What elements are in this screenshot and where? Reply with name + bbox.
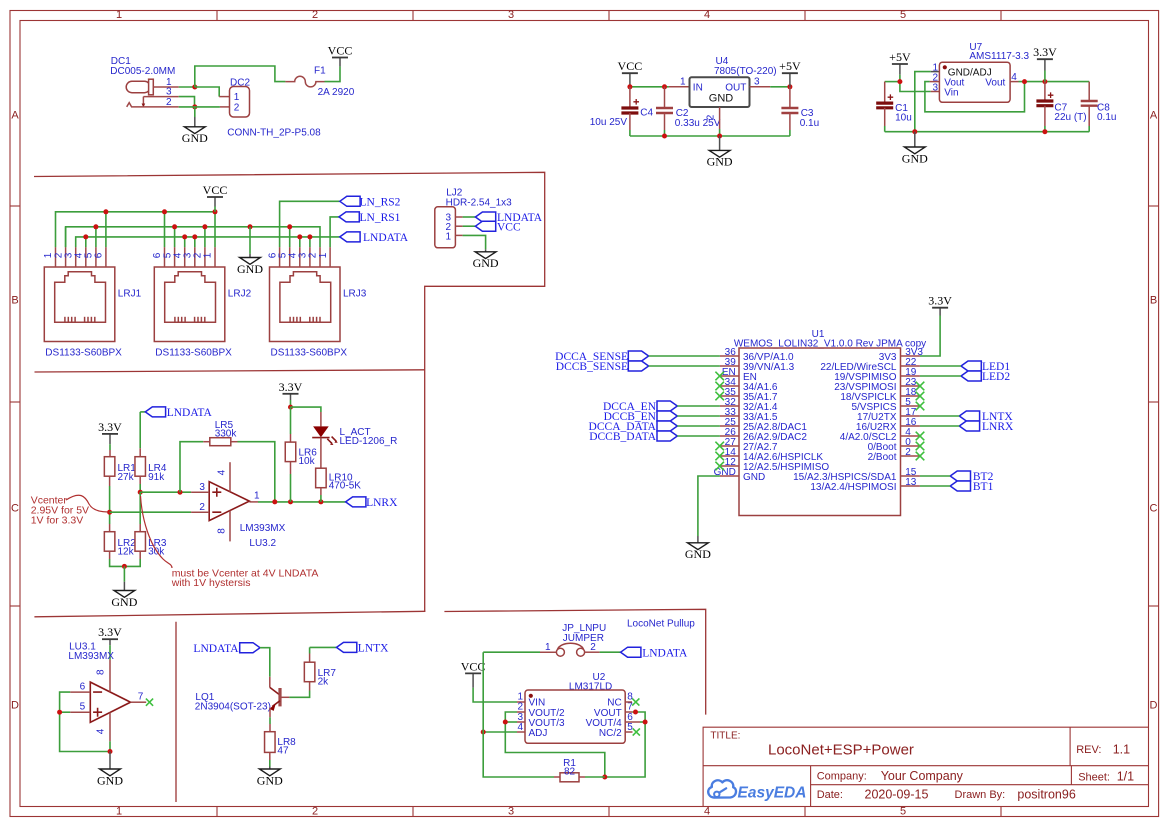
wire BT2 to U1 xyxy=(920,475,950,477)
pin U4.1 IN stub xyxy=(669,86,690,88)
net flag DCCA_SENSE xyxy=(628,351,648,361)
svg-text:13: 13 xyxy=(905,477,917,488)
junction 3.3V/C7 xyxy=(1042,79,1047,84)
svg-text:5: 5 xyxy=(900,9,906,21)
EasyEDA logo xyxy=(708,780,806,801)
svg-text:91k: 91k xyxy=(148,472,165,483)
junction C2 bottom xyxy=(662,134,667,139)
net flag BT2 xyxy=(950,471,970,481)
pin U7.3 Vin stub xyxy=(931,91,940,93)
junction feedback tap on pin3 wire xyxy=(178,490,183,495)
ground symbol at DC input xyxy=(182,107,208,145)
regulator U7 AMS1117-3.3 xyxy=(932,42,1029,103)
power flag 3.3V at LED xyxy=(279,380,303,407)
resistor LR2 12k xyxy=(104,512,136,566)
wire LRJ3 pin5 riser xyxy=(289,227,291,247)
svg-text:1: 1 xyxy=(680,77,686,88)
svg-text:REV:: REV: xyxy=(1076,744,1101,756)
svg-text:5: 5 xyxy=(900,806,906,818)
pin U7.4 Vout stub xyxy=(1010,81,1018,83)
power flag VCC at U2 xyxy=(461,659,486,687)
transistor LQ1 2N3904(SOT-23) xyxy=(195,677,290,718)
wire jumper pin1 to pullup net xyxy=(483,651,540,653)
svg-text:Company:: Company: xyxy=(817,771,867,783)
wire LRJ2 pin6 riser xyxy=(164,212,166,247)
resistor LR8 47 xyxy=(265,724,297,767)
svg-text:GND: GND xyxy=(237,262,263,276)
junction LR6 on output xyxy=(288,499,293,504)
svg-text:8: 8 xyxy=(216,528,227,534)
svg-text:LRJ2: LRJ2 xyxy=(228,288,252,299)
svg-text:GND: GND xyxy=(111,595,137,609)
pin U4.2 GND xyxy=(706,107,720,136)
net flag LN_RS2 xyxy=(340,196,360,206)
net flag LNDATA at LR4 xyxy=(145,407,165,417)
wire DCCA_EN to U1 xyxy=(677,405,720,407)
svg-text:NC/2: NC/2 xyxy=(599,728,622,739)
svg-text:22u (T): 22u (T) xyxy=(1054,112,1086,123)
U1 left pins xyxy=(714,347,830,483)
svg-text:2020-09-15: 2020-09-15 xyxy=(865,788,929,802)
wire fuse to VCC xyxy=(325,66,341,81)
junction divider ground node xyxy=(122,564,127,569)
pin U2.1 VIN stub xyxy=(517,701,525,703)
annotation hysteresis note xyxy=(141,496,319,589)
wire DCCA_SENSE to U1 xyxy=(649,355,720,357)
jumper JP_LNPU xyxy=(545,623,606,656)
wire pullup net left riser xyxy=(483,652,554,777)
svg-text:GND: GND xyxy=(182,131,208,145)
junction feedback on output xyxy=(272,499,277,504)
net flag VCC at LJ2 xyxy=(475,221,495,231)
svg-text:1: 1 xyxy=(203,252,214,258)
svg-text:2N3904(SOT-23): 2N3904(SOT-23) xyxy=(195,702,271,713)
svg-text:4: 4 xyxy=(96,728,107,734)
wire LQ1 collector to LR7 xyxy=(289,691,309,698)
no-connect at LU3.1 pin7 xyxy=(146,699,153,706)
svg-text:HDR-2.54_1x3: HDR-2.54_1x3 xyxy=(446,197,513,208)
ground symbol at LU3.1 xyxy=(97,752,123,788)
svg-text:GND: GND xyxy=(709,93,734,105)
net flag LNDATA at LQ1 xyxy=(240,643,260,653)
junction LRJ1 pin6 on VCC bus xyxy=(103,209,108,214)
junction LRJ3 pin3 xyxy=(307,234,312,239)
svg-text:CONN-TH_2P-P5.08: CONN-TH_2P-P5.08 xyxy=(227,128,321,139)
svg-text:2: 2 xyxy=(706,114,717,120)
svg-text:C: C xyxy=(11,503,19,515)
svg-text:GND: GND xyxy=(473,256,499,270)
svg-text:1.1: 1.1 xyxy=(1113,743,1130,757)
svg-text:ADJ: ADJ xyxy=(529,728,548,739)
net flag DCCA_EN xyxy=(657,401,677,411)
svg-text:1: 1 xyxy=(116,9,122,21)
svg-text:10k: 10k xyxy=(299,456,316,467)
wire DC1 pin1 to junction xyxy=(179,86,195,88)
net flag BT1 xyxy=(950,481,970,491)
wire U7 output to 3.3V and caps xyxy=(1019,81,1090,83)
regulator U2 LM317LD xyxy=(517,672,640,743)
power flag 3.3V at LU3.1 xyxy=(98,625,122,660)
capacitor C3 0.1u xyxy=(781,87,819,136)
svg-text:3: 3 xyxy=(508,9,514,21)
svg-text:LNRX: LNRX xyxy=(366,497,398,509)
svg-text:7805(TO-220): 7805(TO-220) xyxy=(714,66,777,77)
wire LRJ3 pin1 to LN_RS1 flag xyxy=(330,217,339,247)
svg-text:4: 4 xyxy=(216,469,227,475)
svg-text:1: 1 xyxy=(445,231,451,242)
net flag LNDATA at jumper xyxy=(621,647,641,657)
wire LU3.1 pin4 to ground xyxy=(109,741,111,751)
junction U2 ADJ xyxy=(481,730,486,735)
svg-text:positron96: positron96 xyxy=(1017,788,1075,802)
svg-text:LED-1206_R: LED-1206_R xyxy=(340,436,398,447)
svg-text:VCC: VCC xyxy=(203,183,228,197)
net flag LNTX at U1 xyxy=(959,411,979,421)
svg-text:+5V: +5V xyxy=(889,50,911,64)
svg-text:3.3V: 3.3V xyxy=(1033,45,1057,59)
svg-text:7: 7 xyxy=(138,692,144,703)
RJ jack LRJ1 DS1133-S60BPX xyxy=(43,247,141,358)
svg-text:Sheet:: Sheet: xyxy=(1078,772,1110,784)
svg-text:LM393MX: LM393MX xyxy=(68,651,114,662)
svg-text:GND: GND xyxy=(902,151,928,165)
svg-text:2: 2 xyxy=(199,502,205,513)
resistor LR5 330k feedback xyxy=(180,420,275,502)
svg-text:1: 1 xyxy=(234,92,240,103)
net flag LN_RS1 xyxy=(339,212,359,222)
svg-text:LNDATA: LNDATA xyxy=(167,407,213,419)
power flag VCC at fuse xyxy=(328,44,353,67)
svg-text:4: 4 xyxy=(704,9,710,21)
no-connect marks U1 right xyxy=(916,382,925,461)
wire U2 ADJ to pullup net xyxy=(483,731,517,733)
wire comparator output to LNRX xyxy=(258,501,346,503)
wire +5V node to C1 and Vin xyxy=(899,75,901,82)
ground symbol at divider xyxy=(111,566,137,608)
net flag LNRX at comparator xyxy=(346,497,366,507)
svg-text:0.1u: 0.1u xyxy=(800,118,819,129)
pin U4.3 OUT stub xyxy=(750,86,771,88)
svg-text:LNTX: LNTX xyxy=(358,643,389,655)
RJ jack LRJ2 DS1133-S60BPX xyxy=(152,247,251,358)
resistor LR6 10k xyxy=(285,407,317,502)
svg-text:LNDATA: LNDATA xyxy=(193,643,239,655)
region outline: bottom blocks top edge xyxy=(34,611,425,617)
svg-text:DS1133-S60BPX: DS1133-S60BPX xyxy=(155,347,232,358)
svg-text:DS1133-S60BPX: DS1133-S60BPX xyxy=(45,347,122,358)
svg-text:IN: IN xyxy=(693,82,703,93)
junction C2 top xyxy=(662,84,667,89)
wire LRJ2 pin3 riser xyxy=(194,237,196,247)
svg-text:LocoNet Pullup: LocoNet Pullup xyxy=(627,619,695,630)
junction at DC1 pin1 node xyxy=(192,85,197,90)
svg-text:LNRX: LNRX xyxy=(982,421,1014,433)
net flag LED1 xyxy=(961,361,981,371)
junction 3.3V LED node xyxy=(288,405,293,410)
svg-text:10u 25V: 10u 25V xyxy=(590,117,628,128)
wire LRJ1 pin5 riser xyxy=(95,227,97,247)
svg-text:LocoNet+ESP+Power: LocoNet+ESP+Power xyxy=(768,742,914,759)
junction LR10 on output xyxy=(318,499,323,504)
wire bus ground rail (LRJ pins 2,5) xyxy=(66,227,320,247)
wire DC1 pin2 to DC2 pin2 xyxy=(179,106,220,108)
net flag DCCA_DATA xyxy=(657,421,677,431)
power flag 3.3V at divider xyxy=(98,420,122,444)
svg-text:1/1: 1/1 xyxy=(1117,770,1134,784)
RJ jack LRJ3 DS1133-S60BPX xyxy=(267,247,366,358)
resistor LR4 91k xyxy=(135,412,167,492)
wire LQ1 emitter to LR8 xyxy=(269,717,271,724)
svg-text:2: 2 xyxy=(312,9,318,21)
svg-text:1V for 3.3V: 1V for 3.3V xyxy=(31,515,84,527)
svg-text:27k: 27k xyxy=(118,472,135,483)
svg-text:2: 2 xyxy=(590,642,596,653)
junction LRJ2 pin2 xyxy=(202,224,207,229)
wire U1 GND to ground xyxy=(698,476,720,536)
svg-text:2/Boot: 2/Boot xyxy=(868,452,897,463)
regulator U4 7805(TO-220) xyxy=(690,56,777,107)
net flag DCCB_EN xyxy=(657,411,677,421)
capacitor C4 10u 25V xyxy=(590,87,654,136)
ground symbol at LJ2 xyxy=(473,249,499,270)
svg-text:2: 2 xyxy=(166,97,172,108)
svg-text:6: 6 xyxy=(94,252,105,258)
net flag LNDATA at jack bus xyxy=(340,232,360,242)
wire LRJ1 pin6 riser xyxy=(105,212,107,247)
wire bus VCC rail (LRJ pins 1,6) xyxy=(56,212,216,247)
svg-text:LRJ3: LRJ3 xyxy=(343,288,367,299)
svg-text:5: 5 xyxy=(80,702,86,713)
power flag 3.3V at U1 xyxy=(920,294,952,356)
svg-text:3.3V: 3.3V xyxy=(98,625,122,639)
junction LRJ1 pin4 xyxy=(83,234,88,239)
junction LRJ3 pin4 xyxy=(297,234,302,239)
junction LRJ1 pin5 xyxy=(93,224,98,229)
no-connect marks U1 left xyxy=(715,372,724,471)
wire U4 ground rail xyxy=(630,135,790,137)
junction VCC stub / LRJ2 pin1 xyxy=(213,209,218,214)
svg-text:GND: GND xyxy=(743,472,765,483)
ground symbol at jack bus xyxy=(237,227,263,276)
junction +5V node xyxy=(897,79,902,84)
resistor LR7 2k xyxy=(304,647,336,690)
svg-text:JUMPER: JUMPER xyxy=(563,633,604,644)
svg-text:GND: GND xyxy=(257,773,283,787)
svg-text:3.3V: 3.3V xyxy=(98,420,122,434)
wire LED1 to U1 xyxy=(920,365,961,367)
no-connect U2 pin5 xyxy=(633,728,640,735)
wire LNDATA to LQ1 base xyxy=(260,648,270,677)
capacitor C1 10u xyxy=(876,82,912,132)
svg-text:2k: 2k xyxy=(318,677,330,688)
U1 right pins xyxy=(793,347,923,493)
op-amp LU3.1 LM393MX xyxy=(68,642,146,742)
svg-text:TITLE:: TITLE: xyxy=(710,731,740,742)
svg-text:C: C xyxy=(1150,503,1158,515)
junction U7 output xyxy=(1022,79,1027,84)
wire DCCA_DATA to U1 xyxy=(677,425,720,427)
svg-text:LN_RS2: LN_RS2 xyxy=(360,197,401,209)
wire LJ2 pin2 to VCC flag xyxy=(463,225,476,227)
power flag +5V at U4 output xyxy=(779,59,801,87)
svg-text:F1: F1 xyxy=(314,66,326,77)
wire Vcenter to comparator pin2 xyxy=(110,511,192,513)
svg-text:2: 2 xyxy=(234,103,240,114)
svg-text:DS1133-S60BPX: DS1133-S60BPX xyxy=(271,347,348,358)
net flag DCCB_SENSE xyxy=(628,361,648,371)
junction U7 gnd rail left xyxy=(912,129,917,134)
junction LU3.1 ground node xyxy=(108,749,113,754)
ground symbol at U1 xyxy=(685,536,711,561)
no-connect U2 pin8 xyxy=(632,698,639,705)
net flag LED2 xyxy=(961,371,981,381)
svg-text:BT1: BT1 xyxy=(973,481,994,493)
svg-text:Drawn By:: Drawn By: xyxy=(955,789,1006,801)
svg-text:GND: GND xyxy=(707,155,733,169)
svg-text:3: 3 xyxy=(199,482,205,493)
svg-text:3.3V: 3.3V xyxy=(928,294,952,308)
region outline: LocoNet jacks block xyxy=(34,172,545,611)
svg-text:VCC: VCC xyxy=(461,659,486,673)
connector DC1 barrel jack DC005-2.0MM xyxy=(110,56,178,108)
wire LRJ3 pin6 to LN_RS2 flag xyxy=(280,201,340,247)
svg-text:GND: GND xyxy=(97,773,123,787)
svg-text:D: D xyxy=(11,700,19,712)
title block frame xyxy=(703,727,1148,806)
svg-text:47: 47 xyxy=(277,745,289,756)
svg-text:LU3.2: LU3.2 xyxy=(249,538,276,549)
module U1 WEMOS_LOLIN32 V1.0.0 Rev JPMA copy xyxy=(734,329,926,516)
svg-text:2: 2 xyxy=(905,447,911,458)
net flag LNRX at U1 xyxy=(959,421,979,431)
svg-text:D: D xyxy=(1150,700,1158,712)
wire U7 ground rail xyxy=(885,131,1089,133)
wire LRJ3 pin4 riser xyxy=(299,237,301,247)
LED L_ACT LED-1206_R xyxy=(312,412,397,447)
svg-text:LED2: LED2 xyxy=(982,371,1010,383)
svg-text:3: 3 xyxy=(932,83,938,94)
power flag +5V at U7 xyxy=(889,50,911,75)
ground symbol at LR8 xyxy=(257,767,283,788)
svg-text:2: 2 xyxy=(312,806,318,818)
svg-text:10u: 10u xyxy=(895,112,912,123)
capacitor C8 0.1u xyxy=(1081,82,1117,132)
svg-text:DCCB_SENSE: DCCB_SENSE xyxy=(556,361,628,373)
wire BT1 to U1 xyxy=(920,485,950,487)
junction LU3.1 pin5 xyxy=(57,710,62,715)
wire DCCB_EN to U1 xyxy=(677,415,720,417)
svg-text:470-5K: 470-5K xyxy=(329,480,362,491)
svg-text:AMS1117-3.3: AMS1117-3.3 xyxy=(969,51,1029,62)
power flag VCC at U4 input xyxy=(618,59,643,84)
wire U2 VOUT2/VOUT3 feedback xyxy=(505,712,605,777)
power flag VCC at jack bus xyxy=(203,183,228,212)
svg-text:8: 8 xyxy=(96,669,107,675)
resistor LR1 27k xyxy=(104,444,136,512)
svg-text:with 1V hystersis: with 1V hystersis xyxy=(171,577,251,589)
junction C3 top / +5V xyxy=(787,84,792,89)
svg-text:Your Company: Your Company xyxy=(881,769,964,783)
junction U2 pin7 xyxy=(633,710,638,715)
region outline: comparator block top edge xyxy=(35,370,425,372)
svg-text:A: A xyxy=(1150,110,1158,122)
svg-text:VCC: VCC xyxy=(497,221,521,233)
wire LNTX to U1 xyxy=(920,415,959,417)
svg-text:DCCB_DATA: DCCB_DATA xyxy=(589,431,657,443)
ground symbol at U7 xyxy=(902,132,928,166)
junction at DC1 pin2 node xyxy=(192,104,197,109)
svg-text:6: 6 xyxy=(80,682,86,693)
junction U2 pin6 xyxy=(643,720,648,725)
junction GND stub on bus xyxy=(248,224,253,229)
svg-text:VCC: VCC xyxy=(328,44,353,58)
fuse F1 2A 2920 xyxy=(285,66,354,98)
connector DC2 CONN-TH_2P-P5.08 xyxy=(227,78,321,139)
svg-text:GND: GND xyxy=(685,547,711,561)
resistor R1 82 xyxy=(554,758,605,782)
svg-text:LN_RS1: LN_RS1 xyxy=(360,212,401,224)
region outline: divider between LU3.1 and LQ1 blocks xyxy=(175,622,177,802)
svg-text:1: 1 xyxy=(318,252,329,258)
svg-text:LM393MX: LM393MX xyxy=(240,523,286,534)
junction LRJ3 pin5 xyxy=(287,224,292,229)
wire LRJ1 pin4 riser xyxy=(85,237,87,247)
wire LNRX to U1 xyxy=(920,425,959,427)
wire 3.3V to LED xyxy=(291,407,321,412)
resistor LR3 30k xyxy=(124,492,166,566)
wire jumper pin2 to LNDATA flag xyxy=(585,651,600,653)
title text xyxy=(710,731,1134,802)
wire LRJ2 pin4 riser xyxy=(184,237,186,247)
ground symbol at U4 xyxy=(707,136,733,169)
wire LR7 to LNTX flag xyxy=(310,646,337,648)
svg-text:2A 2920: 2A 2920 xyxy=(318,87,355,98)
wire LRJ2 pin2 riser xyxy=(204,227,206,247)
junction R1 right xyxy=(602,775,607,780)
svg-text:Date:: Date: xyxy=(817,789,843,801)
junction LR4 bottom / pin3 node xyxy=(138,490,143,495)
capacitor C2 0.33u 25V xyxy=(656,87,721,136)
region outline: LocoNet pullup block xyxy=(444,609,705,714)
svg-text:B: B xyxy=(1150,295,1157,307)
svg-text:3.3V: 3.3V xyxy=(279,380,303,394)
wire LRJ2 pin5 riser xyxy=(174,227,176,247)
svg-text:DC005-2.0MM: DC005-2.0MM xyxy=(110,66,175,77)
wire DCCB_SENSE to U1 xyxy=(649,365,720,367)
capacitor C7 22u (T) xyxy=(1036,82,1086,132)
wire VCC riser from DC1 to fuse F1 xyxy=(195,66,286,87)
wire bus LNDATA rail (LRJ pins 3,4) xyxy=(76,237,340,247)
svg-text:C4: C4 xyxy=(640,108,653,119)
svg-text:1: 1 xyxy=(254,491,260,502)
svg-text:B: B xyxy=(11,295,18,307)
wire LU3.1 feedback loop xyxy=(60,692,110,751)
svg-text:VCC: VCC xyxy=(618,59,643,73)
junction C7 bottom xyxy=(1042,129,1047,134)
svg-text:Vout: Vout xyxy=(985,77,1005,88)
power flag 3.3V at U7 output xyxy=(1033,45,1057,81)
pin U7.2 Vout stub and loop to output xyxy=(925,82,1025,112)
svg-text:12k: 12k xyxy=(118,547,135,558)
wire U2 VOUT right side xyxy=(605,712,645,777)
svg-text:LNDATA: LNDATA xyxy=(363,232,409,244)
junction LRJ2 pin4 xyxy=(182,234,187,239)
wire LRJ3 pin3 riser xyxy=(309,237,311,247)
svg-text:13/A2.4/HSPIMOSI: 13/A2.4/HSPIMOSI xyxy=(810,482,896,493)
junction U4 GND bottom xyxy=(717,134,722,139)
svg-text:EasyEDA: EasyEDA xyxy=(738,785,807,802)
wire U4 OUT to +5V xyxy=(770,86,790,88)
